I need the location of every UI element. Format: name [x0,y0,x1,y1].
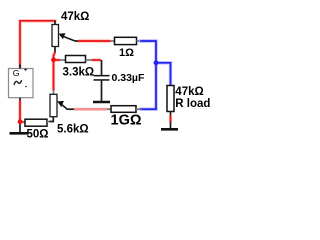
ground (bottom left) [10,132,29,135]
node: blue junction dot [154,60,159,65]
svg-text:1Ω: 1Ω [119,47,134,59]
wire: wiper to 1GΩ (salmon) [74,108,108,111]
pin stub gray right of 50Ω [47,121,50,123]
potentiometer R1 47kΩ body [52,25,59,47]
wire: 3.3k to capacitor (red) [92,58,101,61]
svg-text:5.6kΩ: 5.6kΩ [57,123,89,135]
pin stub gray right of 1Ω [137,40,142,42]
ground (below R load) [161,128,178,131]
wire: cap bottom to ground [101,81,103,102]
node: red junction dot bottom-left [18,119,23,124]
wire: generator bottom to node (red) [18,101,21,123]
generator sine tilde [14,81,21,85]
pin stubs generator [19,65,21,69]
pin stub below R load [170,112,172,117]
pin stub gray right of 1G [136,108,142,110]
generator G source box [9,69,34,98]
resistor 1Ω body [115,37,137,44]
resistor R load 47kΩ body [167,86,174,112]
ground (below capacitor) [93,101,110,104]
resistor 3.3kΩ body [66,56,86,63]
pin stub gray left of 50Ω [23,121,26,123]
wiper arrow of 47k pot [59,33,66,39]
resistor 50Ω body [25,119,47,126]
svg-text:R load: R load [175,98,210,110]
svg-text:3.3kΩ: 3.3kΩ [63,67,95,79]
wire: pot junction vertical (red, left middle) [54,47,56,53]
wire: node to ground (black) [19,124,21,133]
svg-text:0.33µF: 0.33µF [112,72,145,84]
wire: generator top to 47k pot (red, top-left loop) [20,21,55,66]
wire: 1Ω to right rail (blue) [141,41,156,109]
pin stub gray left of 3.3k [60,59,67,61]
wire: down to cap top plate [101,60,103,75]
wire: R load to ground (red) [169,116,172,123]
generator minus sign [25,86,27,88]
wire: node to 50Ω (red) [20,120,24,123]
pin stub gray right of 3.3k [86,59,93,61]
svg-text:1GΩ: 1GΩ [111,113,142,129]
potentiometer R2 5.6kΩ body [50,94,57,116]
wiper arrow of 5.6k pot [57,101,64,107]
svg-text:50Ω: 50Ω [27,128,49,140]
generator plus sign [24,68,27,71]
resistor 1GΩ body [111,106,136,113]
capacitor C1 0.33µF plates [94,75,110,77]
svg-text:47kΩ: 47kΩ [175,86,203,98]
pin stub gray left of 1G [107,108,112,110]
wire: black pin stub into pot top [54,21,56,25]
wire: junction to 3.3k (red) [54,58,61,61]
pin stub gray left of 1Ω [111,40,116,42]
svg-text:47kΩ: 47kΩ [61,11,89,23]
node: red junction dot [51,57,56,62]
wire: wiper to 1Ω (red) [78,39,111,42]
wire: 50Ω to pot bottom [50,117,54,122]
wire: junction to R load (blue) [156,63,171,85]
svg-text:G: G [13,68,20,78]
